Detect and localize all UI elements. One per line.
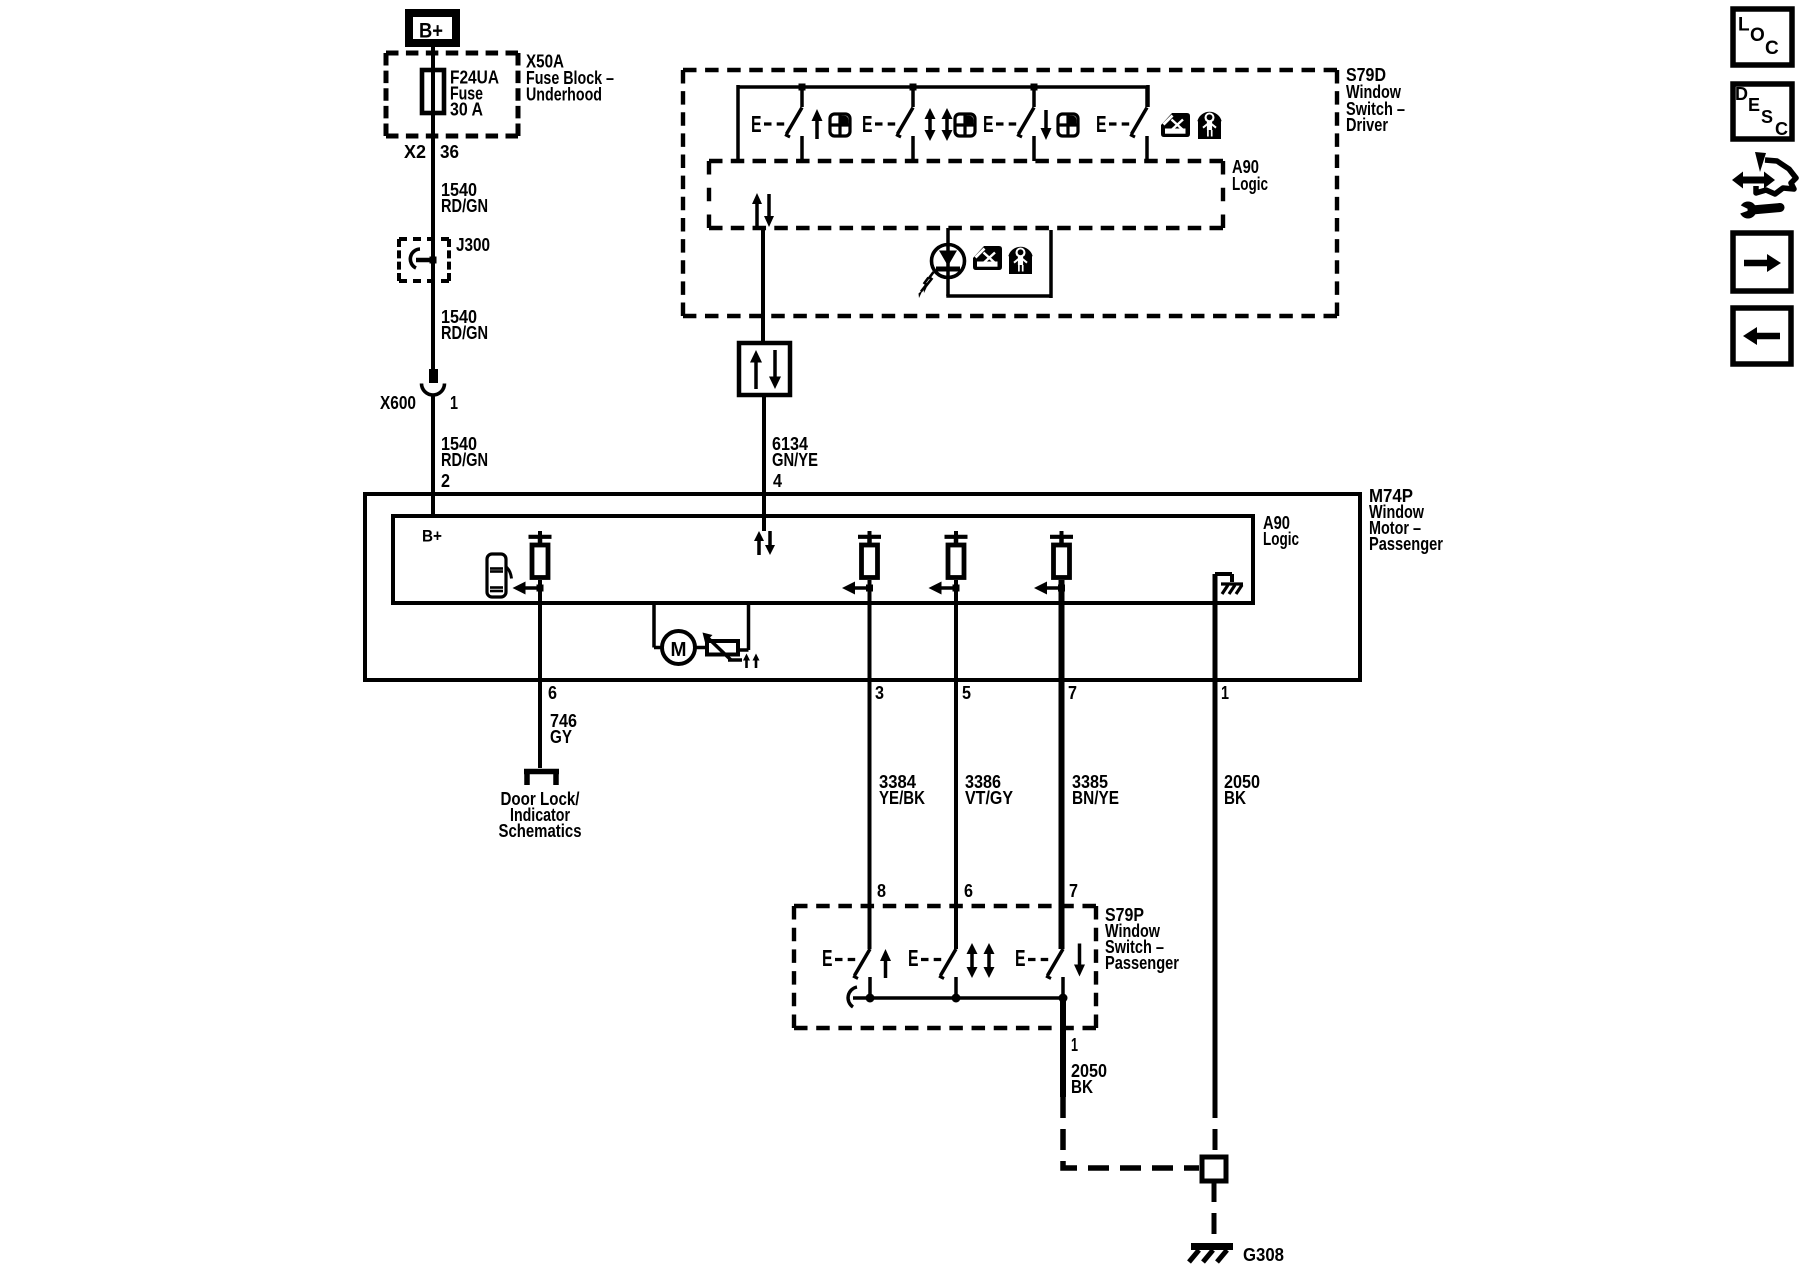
icon double arrows (S79P) xyxy=(967,943,995,978)
nav box next (right arrow) xyxy=(1733,233,1791,291)
icon up arrow (S79P) xyxy=(880,949,891,978)
svg-text:E: E xyxy=(983,111,994,137)
switch S79P auto xyxy=(908,945,956,998)
icon double up/down arrows xyxy=(925,108,953,141)
pin labels 8 6 7 (S79P) xyxy=(877,881,1078,901)
position sensor / drive 1 (pin 6) xyxy=(513,531,552,595)
svg-text:BK: BK xyxy=(1071,1077,1093,1097)
wire 2050 BK (S79P pin 1) xyxy=(1060,998,1066,1097)
switch S79P up xyxy=(822,945,870,998)
connector X600 xyxy=(380,369,458,413)
wire label 1540 RD/GN (1) xyxy=(441,180,488,216)
svg-text:6: 6 xyxy=(964,881,973,901)
svg-text:E: E xyxy=(822,945,833,971)
icon up/down arrows in A90 xyxy=(752,193,774,227)
svg-text:E: E xyxy=(1748,95,1760,115)
label B+ node xyxy=(422,527,442,546)
wire label 746 GY xyxy=(550,711,577,747)
svg-text:7: 7 xyxy=(1069,881,1078,901)
svg-text:D: D xyxy=(1735,84,1748,104)
svg-text:BN/YE: BN/YE xyxy=(1072,788,1119,808)
window motor M74P box xyxy=(365,494,1360,680)
svg-text:3: 3 xyxy=(875,683,884,703)
dashed wire to splice (left) xyxy=(1063,1097,1199,1168)
svg-text:B+: B+ xyxy=(422,527,442,546)
wire label 2050 BK (motor) xyxy=(1224,772,1260,808)
svg-text:Logic: Logic xyxy=(1232,174,1268,194)
nav box LOC xyxy=(1733,9,1792,65)
wire pin2 to B+ node xyxy=(431,494,435,516)
svg-text:1: 1 xyxy=(1071,1035,1078,1055)
ground node inside M74P logic xyxy=(1215,574,1243,603)
dashed wire to splice (right) xyxy=(1213,1097,1218,1157)
svg-text:1: 1 xyxy=(1221,683,1229,703)
svg-text:RD/GN: RD/GN xyxy=(441,196,488,216)
switch S79D up (driver front) xyxy=(751,87,802,161)
svg-text:E: E xyxy=(1015,945,1026,971)
svg-text:X2: X2 xyxy=(404,142,426,162)
svg-text:Logic: Logic xyxy=(1263,529,1299,549)
svg-text:E: E xyxy=(1096,111,1107,137)
wire label 3386 VT/GY xyxy=(965,772,1013,808)
pin label 4 xyxy=(773,471,782,491)
icon window with X xyxy=(1161,113,1190,137)
svg-text:E: E xyxy=(862,111,873,137)
svg-text:B+: B+ xyxy=(419,20,443,43)
nav icon diagnostics (arrows and wrench) xyxy=(1732,152,1796,219)
window switch S79P box xyxy=(794,906,1096,1028)
svg-text:8: 8 xyxy=(877,881,886,901)
icon up arrow xyxy=(812,109,823,139)
svg-text:E: E xyxy=(751,111,762,137)
svg-text:Schematics: Schematics xyxy=(499,821,582,841)
svg-text:BK: BK xyxy=(1224,788,1246,808)
svg-text:Passenger: Passenger xyxy=(1369,534,1443,554)
wire S79D logic output xyxy=(761,228,765,343)
pin label 2 xyxy=(441,471,450,491)
icon lockout padlock xyxy=(1198,113,1221,140)
position sensor / drive 3 (pin 5) xyxy=(929,531,968,595)
wire B+ to J300 (through fuse) xyxy=(431,47,435,260)
icon window (front) xyxy=(830,114,850,136)
icon down arrow xyxy=(1041,110,1052,140)
svg-text:M: M xyxy=(671,639,687,661)
svg-text:G308: G308 xyxy=(1243,1245,1284,1265)
switch S79D down xyxy=(983,87,1034,161)
wire 6134 GN/YE xyxy=(762,395,766,494)
svg-text:Underhood: Underhood xyxy=(526,85,602,105)
label F24UA Fuse 30 A xyxy=(450,68,499,120)
icon window with X (LED) xyxy=(973,246,1002,270)
switch S79D auto up/down xyxy=(862,87,913,161)
icon down arrow (S79P) xyxy=(1074,944,1085,977)
wire label 1540 RD/GN (2) xyxy=(441,307,488,343)
icon window (auto) xyxy=(955,114,975,136)
icon padlock (LED) xyxy=(1009,248,1032,275)
svg-text:E: E xyxy=(908,945,919,971)
wire 3386 VT/GY (pin 5) xyxy=(954,580,958,949)
svg-text:O: O xyxy=(1750,25,1765,46)
svg-text:6: 6 xyxy=(548,683,557,703)
junction dots on S79D bus xyxy=(799,84,1038,91)
LED indicator in S79D xyxy=(919,228,1052,298)
bus wire in S79D xyxy=(738,85,1148,161)
svg-text:X600: X600 xyxy=(380,393,416,413)
label Door Lock/ Indicator Schematics xyxy=(499,789,582,841)
window up/down function box xyxy=(739,343,790,395)
svg-text:S: S xyxy=(1761,107,1773,127)
svg-text:C: C xyxy=(1775,119,1788,139)
wire label 6134 GN/YE xyxy=(772,434,818,470)
svg-text:4: 4 xyxy=(773,471,782,491)
svg-text:VT/GY: VT/GY xyxy=(965,788,1013,808)
fuse block X50A box xyxy=(386,53,518,136)
svg-text:2: 2 xyxy=(441,471,450,491)
label A90 Logic (S79D) xyxy=(1232,157,1268,194)
logic module A90 box (M74P) xyxy=(393,516,1253,603)
wire pin4 into logic xyxy=(762,494,766,531)
car icon xyxy=(487,554,512,597)
pin labels 6 3 5 7 1 xyxy=(548,683,1229,703)
nav box back (left arrow) xyxy=(1733,308,1791,364)
svg-text:7: 7 xyxy=(1068,683,1077,703)
svg-text:36: 36 xyxy=(440,142,459,162)
wire label 3385 BN/YE xyxy=(1072,772,1119,808)
wire label 3384 YE/BK xyxy=(879,772,925,808)
motor M with thermal protector xyxy=(654,603,760,668)
svg-text:L: L xyxy=(1738,15,1750,36)
common bus in S79P xyxy=(848,987,1067,1007)
wire label 2050 BK (S79P) xyxy=(1071,1061,1107,1097)
splice block xyxy=(1202,1157,1226,1181)
icon up/down arrows (M74P logic) xyxy=(754,531,775,555)
svg-text:J300: J300 xyxy=(456,235,490,255)
svg-text:Passenger: Passenger xyxy=(1105,953,1179,973)
switch S79P down xyxy=(1015,945,1063,998)
svg-text:C: C xyxy=(1765,38,1779,59)
svg-text:Driver: Driver xyxy=(1346,115,1388,135)
nav box DESC xyxy=(1733,84,1792,139)
svg-text:GN/YE: GN/YE xyxy=(772,450,818,470)
window switch S79D box xyxy=(683,70,1337,316)
svg-text:YE/BK: YE/BK xyxy=(879,788,925,808)
wire label 1540 RD/GN (3) xyxy=(441,434,488,470)
fuse F24UA xyxy=(422,70,444,113)
dashed wire splice to ground xyxy=(1212,1181,1217,1247)
label S79P Window Switch - Passenger xyxy=(1105,905,1179,973)
splice J300 xyxy=(399,235,490,281)
wire 746 GY (pin 6) xyxy=(538,580,542,768)
wire 3385 BN/YE (pin 7) xyxy=(1059,580,1065,949)
wire X600 to M74P pin 2 xyxy=(431,394,435,494)
svg-text:5: 5 xyxy=(962,683,971,703)
svg-text:1: 1 xyxy=(450,393,458,413)
label S79D Window Switch - Driver xyxy=(1346,65,1405,135)
switch S79D lockout xyxy=(1096,87,1147,161)
svg-text:30 A: 30 A xyxy=(450,100,483,120)
logic module A90 box (S79D) xyxy=(709,161,1223,228)
label M74P Window Motor - Passenger xyxy=(1369,486,1443,554)
wire J300 to X600 xyxy=(431,260,435,369)
icon window (down) xyxy=(1058,114,1078,136)
ground G308 xyxy=(1189,1245,1284,1265)
off-page connector to door lock schematics xyxy=(524,772,559,786)
wire 3384 YE/BK (pin 3) xyxy=(868,580,872,949)
svg-text:RD/GN: RD/GN xyxy=(441,450,488,470)
pin label X2 36 xyxy=(404,142,459,162)
label X50A Fuse Block - Underhood xyxy=(526,52,614,105)
label A90 Logic (M74P) xyxy=(1263,513,1299,549)
wire 2050 BK (pin 1, motor side) xyxy=(1213,574,1218,1097)
svg-text:RD/GN: RD/GN xyxy=(441,323,488,343)
battery B+ xyxy=(405,9,460,47)
svg-text:GY: GY xyxy=(550,727,572,747)
position sensor / drive 2 (pin 3) xyxy=(842,531,881,595)
position sensor / drive 4 (pin 7) xyxy=(1034,531,1073,595)
pin label 1 (S79P) xyxy=(1071,1035,1078,1055)
